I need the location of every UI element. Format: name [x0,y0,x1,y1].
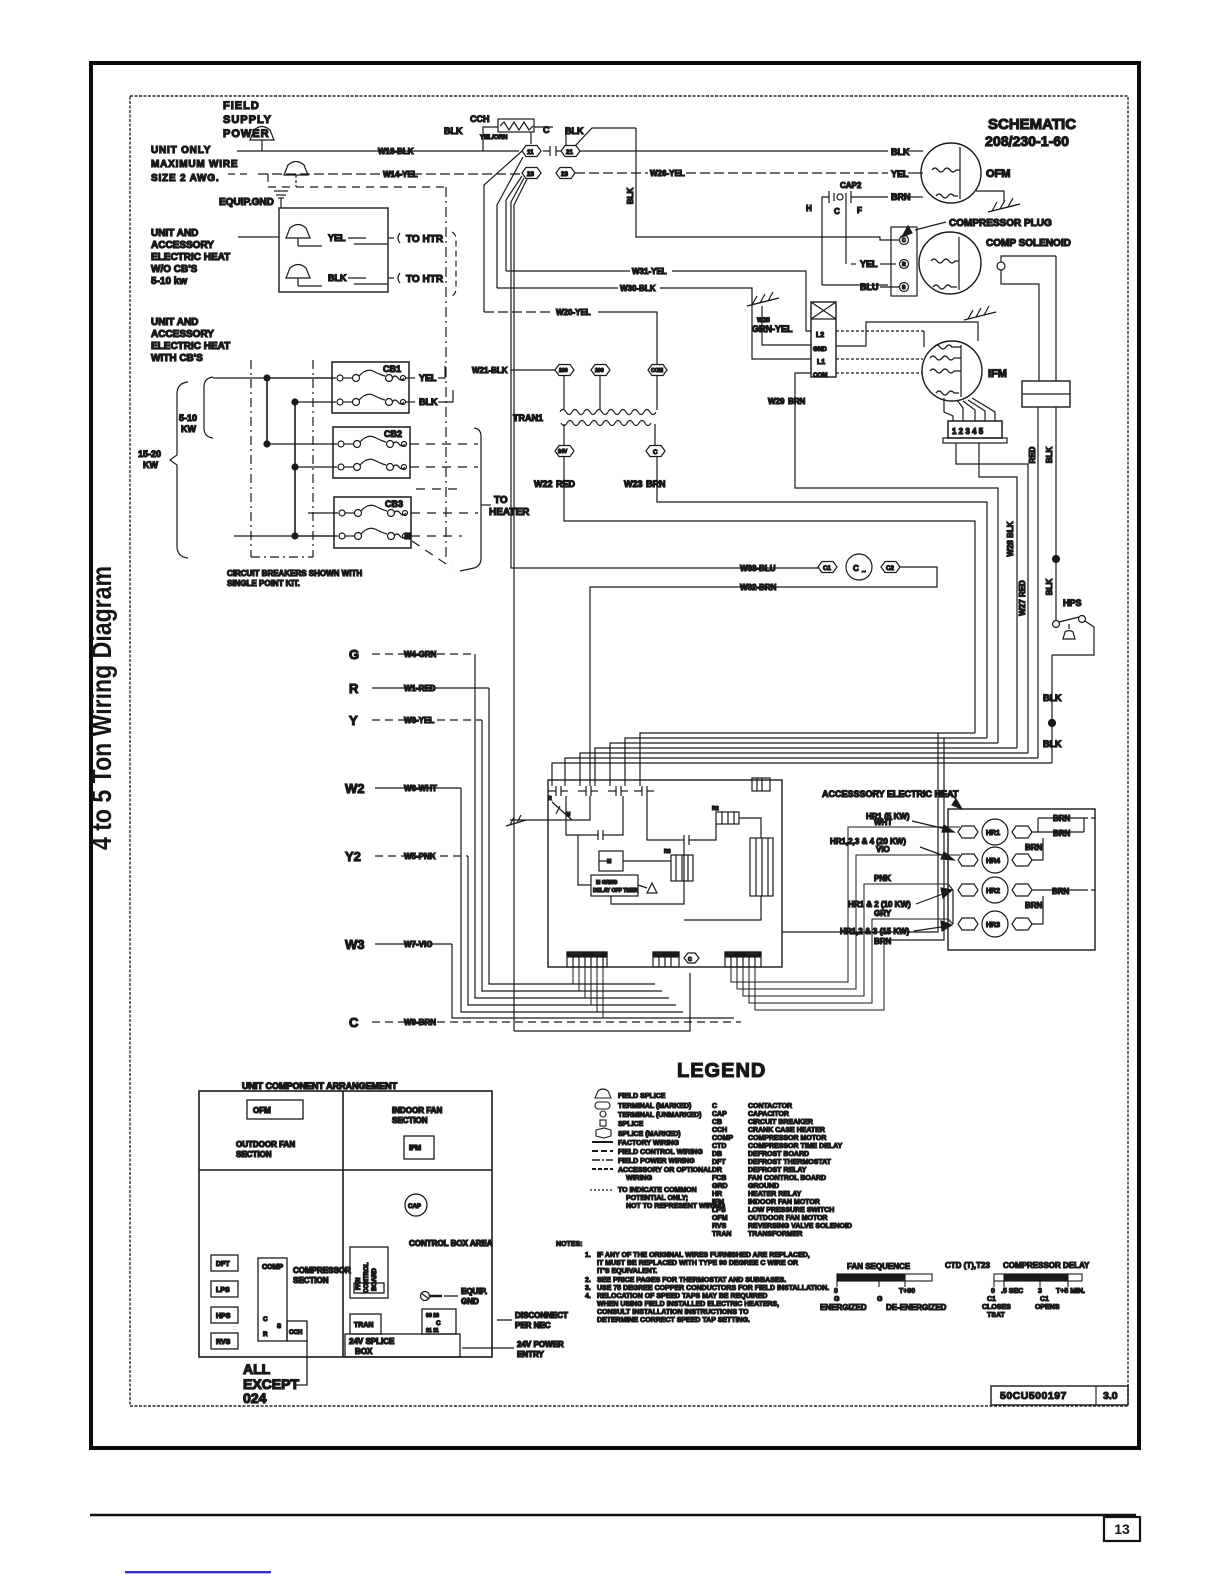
svg-text:ENERGIZED: ENERGIZED [820,1303,867,1312]
board internal wires [548,796,761,920]
svg-text:S: S [277,1323,281,1330]
coil R2 [712,806,739,824]
page outer border frame [91,63,1139,1448]
svg-text:R: R [902,262,906,268]
svg-text:HR: HR [712,1191,722,1198]
label CONTROL BOX AREA [409,1239,493,1248]
svg-text:FIELD POWER WIRING: FIELD POWER WIRING [618,1158,695,1165]
svg-text:IFM: IFM [409,1145,421,1152]
svg-text:C: C [688,957,692,963]
svg-text:TRAN1: TRAN1 [513,413,543,423]
svg-text:W30-BLK: W30-BLK [620,284,656,293]
svg-text:ELECTRIC HEAT: ELECTRIC HEAT [151,341,230,352]
svg-text:1 2 3 4 5: 1 2 3 4 5 [952,427,984,436]
svg-text:TRAN: TRAN [354,1322,373,1329]
svg-text:FCB: FCB [712,1175,726,1182]
svg-text:24V: 24V [558,449,568,455]
svg-text:HR1: HR1 [986,830,1000,837]
label UNIT AND ACCESSORY ELECTRIC HEAT W/O CB'S 5-10 kw [151,228,230,287]
coil R3 [664,849,693,881]
terminal 24V [555,446,574,457]
terminal 23b [556,168,575,179]
HR2 HR3 left link [948,884,953,924]
label BRN feed [874,937,892,946]
svg-text:SPLICE (MARKED): SPLICE (MARKED) [618,1131,681,1138]
bracket 5-10 KW [179,377,213,438]
board pin header group 2 [653,952,679,967]
label VIO [876,845,890,854]
svg-text:IFM: IFM [988,368,1007,380]
note circuit breakers single point [227,569,362,588]
heater relay HR3 [958,911,1032,937]
svg-text:FACTORY WIRING: FACTORY WIRING [618,1140,679,1147]
svg-text:W2: W2 [345,781,365,796]
label ACCESSSORY ELECTRIC HEAT [822,789,962,809]
compressor plug terminal box [891,227,917,296]
svg-text:CCH: CCH [289,1329,303,1336]
svg-text:IFM: IFM [712,1199,724,1206]
svg-text:TO HTR: TO HTR [406,274,444,285]
svg-text:CLOSES: CLOSES [982,1304,1011,1311]
ground for OFM [988,198,1020,212]
high pressure switch HPS [1053,598,1086,639]
DFT box [211,1255,238,1271]
svg-text:BRN: BRN [1025,901,1043,910]
svg-text:PER NEC: PER NEC [515,1321,551,1330]
label BLK left of CCH [444,125,584,141]
svg-text:IT MUST BE REPLACED WITH TYPE: IT MUST BE REPLACED WITH TYPE 90 DEGREE … [597,1260,798,1267]
svg-text:G: G [877,1296,883,1303]
svg-text:HEATER RELAY: HEATER RELAY [748,1191,802,1198]
wire W33 BLU to contactor coil [511,178,818,573]
dashed wires CB2 to heater [410,444,478,489]
relay arm [548,796,572,820]
svg-text:W31-YEL: W31-YEL [632,267,667,276]
defrost board outline [548,780,782,967]
label COMPRESSOR PLUG [902,218,1052,237]
wire W23 BRN [624,457,987,738]
svg-text:DE-ENERGIZED: DE-ENERGIZED [886,1303,947,1312]
label WHT [874,818,892,827]
svg-text:SECTION: SECTION [293,1276,329,1285]
svg-text:W26-YEL: W26-YEL [650,169,685,178]
svg-text:BLK: BLK [328,273,347,283]
wire BLK to HTR [328,273,394,284]
svg-text:DFT: DFT [712,1159,726,1166]
svg-text:BLK: BLK [1045,447,1054,464]
contactor coil terminal C2 [881,562,900,573]
FAN CONTROL BOARD box [350,1247,388,1298]
svg-text:C: C [712,1103,717,1110]
svg-text:LPS: LPS [712,1207,726,1214]
vertical page title [86,566,117,850]
svg-text:SECTION: SECTION [392,1116,428,1125]
label W27 RED [1018,580,1027,616]
dash-dot field boundary vertical [445,187,447,560]
svg-text:FAN SEQUENCE: FAN SEQUENCE [847,1262,911,1271]
svg-text:CAP: CAP [408,1203,421,1210]
svg-text:3.: 3. [585,1285,591,1292]
svg-text:C: C [653,449,658,456]
board capacitor 1 [590,830,611,840]
svg-text:BLK: BLK [891,147,910,157]
svg-text:CTD (T),T23: CTD (T),T23 [945,1261,990,1270]
svg-text:COM: COM [813,372,827,379]
wire CAP2 C to comp R YEL [846,201,896,269]
svg-text:COMPRESSOR TIME DELAY: COMPRESSOR TIME DELAY [748,1143,843,1150]
svg-text:C: C [349,1015,359,1030]
wire BLK hook to vertical [575,128,636,146]
contact TO HTR lower [398,273,444,285]
wires pins group1 to bottom bundle [573,967,734,1018]
svg-text:DEFROST BOARD: DEFROST BOARD [748,1151,809,1158]
svg-text:W28 BLK: W28 BLK [1006,521,1015,556]
svg-text:RED: RED [556,479,576,489]
wire 21 to OFM BLK [580,147,923,157]
contactor C coil box [811,302,836,379]
svg-text:GND: GND [461,1297,479,1306]
HR box right edge outputs [1084,818,1095,890]
wire CCH BLK run to solenoid [626,128,899,240]
svg-text:BLK: BLK [1045,579,1054,596]
svg-text:CAP: CAP [712,1111,727,1118]
circuit breaker CB2 [333,427,410,478]
dashed wires CB3 to heater [411,513,478,568]
svg-text:200: 200 [595,368,604,374]
svg-text:208/230-1-60: 208/230-1-60 [985,133,1069,149]
svg-text:F: F [857,206,862,215]
wire 23 to OFM YEL W26 [575,169,923,179]
svg-text:024: 024 [243,1390,267,1406]
svg-text:NOT TO REPRESENT WIRING: NOT TO REPRESENT WIRING [626,1203,726,1210]
relay M box [599,851,623,871]
legend abbreviations column [712,1103,852,1238]
board pin header group 1 [567,952,607,967]
svg-text:UNIT AND: UNIT AND [151,317,198,328]
unit arrangement outer box [199,1091,492,1357]
svg-text:R: R [263,1331,268,1338]
svg-text:TSAT: TSAT [987,1312,1005,1319]
bundle wire W23 BRN [625,738,987,786]
board top contact 3 [608,786,628,796]
svg-text:CONTROL: CONTROL [363,1262,370,1293]
contactor coil C [846,554,872,580]
accessory electric heat box [948,809,1095,950]
reversing valve solenoid RVS [1022,381,1070,407]
wire CAP2 F to OFM BRN [851,192,923,202]
wire OFM to ground [976,191,1004,201]
svg-text:R: R [349,681,359,696]
svg-text:UNIT AND: UNIT AND [151,228,198,239]
wire W21 BLK to tap 230 [472,366,555,375]
svg-text:CONTACTOR: CONTACTOR [748,1103,792,1110]
terminal 200 [591,365,610,376]
wire L2 to IFM [836,331,924,347]
svg-text:R3: R3 [664,849,671,855]
circuit breaker CB1 [332,362,409,413]
label HR123 15KW with arrow [840,921,952,936]
svg-text:COMP SOLENOID: COMP SOLENOID [986,238,1071,249]
svg-text:C2: C2 [886,565,894,572]
svg-text:Y2: Y2 [345,849,361,864]
label INDOOR FAN SECTION [392,1106,442,1125]
svg-text:BLK: BLK [419,397,438,407]
svg-text:SCHEMATIC: SCHEMATIC [988,116,1076,133]
svg-text:W33-BLU: W33-BLU [740,564,776,573]
svg-text:W22: W22 [534,479,553,489]
svg-text:RVS: RVS [712,1223,727,1230]
wire W20 YEL to COM tap [484,308,657,364]
svg-text:TERMINAL (MARKED): TERMINAL (MARKED) [618,1103,691,1110]
svg-text:21 11: 21 11 [426,1328,439,1334]
svg-text:CB: CB [712,1119,722,1126]
svg-text:G: G [349,647,359,662]
svg-text:HPS: HPS [216,1313,231,1320]
svg-text:W27 RED: W27 RED [1018,580,1027,616]
LPS box [211,1281,238,1297]
bundle wire W22 RED [640,733,975,786]
wire bracket to bus B [234,533,334,539]
terminal 230 [555,365,574,376]
svg-text:LPS: LPS [216,1287,230,1294]
wire CCH to terminal 11 [483,127,566,151]
svg-text:23: 23 [527,171,534,178]
svg-text:FIELD SPLICE: FIELD SPLICE [618,1093,666,1100]
svg-text:W/O CB'S: W/O CB'S [151,264,198,275]
svg-text:3.0: 3.0 [1103,1390,1118,1402]
svg-text:POWER: POWER [223,128,270,140]
svg-text:HR4: HR4 [986,858,1000,865]
HR3 link BRN [1025,896,1043,924]
svg-text:REVERSING VALVE SOLENOID: REVERSING VALVE SOLENOID [748,1223,852,1230]
svg-text:WHEN USING FIELD INSTALLED ELE: WHEN USING FIELD INSTALLED ELECTRIC HEAT… [597,1301,779,1308]
junction BLK labels right column [1043,655,1062,763]
board pin C [684,953,699,963]
svg-text:IT'S EQUIVALENT.: IT'S EQUIVALENT. [597,1268,657,1275]
svg-text:SECTION: SECTION [236,1150,272,1159]
heater relay HR1 [958,819,1032,845]
svg-text:BRN: BRN [891,192,911,202]
svg-text:RVS: RVS [216,1339,231,1346]
svg-text:2.: 2. [585,1277,591,1284]
svg-text:BRN: BRN [788,397,806,406]
svg-text:ALL: ALL [243,1361,271,1377]
svg-text:CONTROL BOX AREA: CONTROL BOX AREA [409,1239,493,1248]
svg-text:ACCESSORY: ACCESSORY [151,240,214,251]
svg-text:LOW PRESSURE SWITCH: LOW PRESSURE SWITCH [748,1207,834,1214]
svg-text:C: C [436,1320,441,1327]
svg-text:DFT: DFT [216,1261,230,1268]
svg-text:GRY: GRY [874,909,892,918]
legend accessory wiring [592,1167,713,1182]
wire W31 YEL to L2 [506,267,811,331]
wire W30 BLK to L1 [497,284,811,359]
svg-text:15-20: 15-20 [138,449,161,459]
svg-text:KW: KW [143,460,158,470]
svg-text:HR1,2 & 3 (15 KW): HR1,2 & 3 (15 KW) [840,927,910,936]
svg-text:YEL: YEL [891,169,909,179]
long vertical to C pin [514,973,690,1031]
legend splice marked symbol [596,1128,681,1138]
svg-text:WHT: WHT [874,818,892,827]
svg-text:ACCESSORY OR OPTIONAL: ACCESSORY OR OPTIONAL [618,1167,713,1174]
svg-text:R: R [548,796,552,802]
heater relay HR4 [958,847,1032,873]
svg-text:S: S [902,285,906,291]
svg-text:YEL: YEL [860,259,878,269]
svg-text:ACCESSORY: ACCESSORY [151,329,214,340]
TRAN box [350,1314,381,1334]
svg-text:5-10: 5-10 [179,413,197,423]
thermostat lead G [349,647,669,998]
svg-text:GROUND: GROUND [748,1183,779,1190]
thermostat lead R [349,681,655,984]
thermostat lead W3 [345,937,734,1018]
CAP circle [405,1194,427,1216]
label LEGEND [677,1060,766,1082]
svg-text:W32-BRN: W32-BRN [740,583,777,592]
motor COMP [919,232,981,294]
svg-text:DR: DR [712,1167,722,1174]
thermostat lead Y [349,713,662,991]
label SCHEMATIC 208/230-1-60 [985,116,1076,149]
svg-text:IF ANY OF THE ORIGINAL WIRES F: IF ANY OF THE ORIGINAL WIRES FURNISHED A… [597,1252,810,1259]
svg-text:C: C [853,564,859,573]
svg-text:L2: L2 [816,332,824,339]
svg-text:USE 75 DEGREE COPPER CONDUCTOR: USE 75 DEGREE COPPER CONDUCTORS FOR FIEL… [597,1285,829,1292]
motor OFM [921,143,1010,203]
svg-text:UNIT ONLY: UNIT ONLY [151,145,211,156]
svg-text:T+90: T+90 [899,1288,915,1295]
svg-text:13: 13 [1114,1521,1130,1537]
svg-text:VIO: VIO [876,845,890,854]
svg-text:C1: C1 [1040,1296,1049,1303]
svg-text:W14-YEL: W14-YEL [383,170,418,179]
svg-text:R2: R2 [712,806,719,812]
svg-text:OFM: OFM [986,168,1010,180]
svg-text:GRN-YEL: GRN-YEL [752,324,793,334]
svg-text:HR3: HR3 [986,922,1000,929]
svg-text:FIELD CONTROL WIRING: FIELD CONTROL WIRING [618,1149,703,1156]
svg-text:HR1,2,3 & 4 (20 KW): HR1,2,3 & 4 (20 KW) [830,837,906,846]
bundle wire RED RVS [565,758,1038,786]
small box top right [752,778,770,791]
label GRY [874,909,892,918]
svg-text:CONSULT INSTALLATION INSTRUCTI: CONSULT INSTALLATION INSTRUCTIONS TO [597,1309,749,1316]
label OUTDOOR FAN SECTION [236,1140,295,1159]
terminal 11 [522,146,541,157]
svg-text:OUTDOOR FAN: OUTDOOR FAN [236,1140,295,1149]
label 24V POWER ENTRY [462,1340,564,1359]
svg-text:SINGLE POINT KIT.: SINGLE POINT KIT. [227,579,300,588]
svg-text:W13-BLK: W13-BLK [378,147,414,156]
label HR1 5KW with arrow [866,812,954,832]
svg-text:RELOCATION OF SPEED TAPS MAY: RELOCATION OF SPEED TAPS MAY BE REQUIRED [597,1293,768,1300]
contact between 11 and 21 [543,146,561,156]
svg-text:11: 11 [527,149,534,156]
svg-text:T+5 MIN.: T+5 MIN. [1056,1288,1085,1295]
board top contact 1 [548,786,568,796]
CB3 pole 1 [308,505,408,516]
drawing number block [991,1386,1128,1405]
timer box DELAY OFF TIMER [591,875,638,896]
svg-text:EQUIP.GND: EQUIP.GND [219,197,274,208]
IFM box [404,1136,434,1159]
svg-text:DELAY OFF TMER: DELAY OFF TMER [593,888,638,894]
notes block [556,1241,829,1324]
heater relay HR2 [958,877,1032,903]
svg-text:GRD: GRD [712,1183,728,1190]
svg-text:93 23: 93 23 [426,1313,439,1319]
board ground [506,815,548,826]
field splice S1 [250,127,274,152]
svg-text:C1: C1 [987,1296,996,1303]
svg-text:W3-YEL: W3-YEL [404,716,434,725]
label HR1234 20KW with arrow [830,837,954,860]
svg-text:COM: COM [651,368,663,374]
svg-text:21: 21 [566,149,573,156]
board top contact 4 [634,786,654,796]
CB1 pole 2 [295,394,415,405]
dashed field boundary under splices [268,174,446,187]
legend factory wiring [592,1140,679,1147]
svg-text:Y: Y [349,713,358,728]
CB1 pole 1 [267,370,415,381]
field splice S2 [284,162,308,188]
svg-text:ENTRY: ENTRY [517,1350,544,1359]
svg-text:BRN: BRN [1025,843,1043,852]
svg-text:W21-BLK: W21-BLK [472,366,508,375]
svg-text:W7-VIO: W7-VIO [404,940,432,949]
svg-text:C1: C1 [823,565,831,572]
svg-text:OUTDOOR FAN MOTOR: OUTDOOR FAN MOTOR [748,1215,828,1222]
svg-text:DISCONNECT: DISCONNECT [515,1311,568,1320]
label COMP SOLENOID [986,238,1071,249]
svg-text:M: M [607,859,611,865]
svg-text:W23: W23 [624,479,643,489]
legend terminal marked symbol [595,1102,691,1110]
compressor delay diagram [945,1261,1090,1319]
motor IFM [922,341,1007,401]
svg-text:BLU: BLU [860,282,879,292]
svg-text:ACCESSSORY ELECTRIC HEAT: ACCESSSORY ELECTRIC HEAT [822,789,959,799]
terminal 21 [561,146,580,157]
circuit breaker CB3 [334,497,411,548]
HR2 output BRN [1032,887,1084,896]
svg-text:PNK: PNK [874,874,891,883]
wire W32 BRN coil return [590,567,937,786]
svg-text:~: ~ [862,569,866,576]
field splice S3 [286,225,322,247]
thermostat lead Y2 [345,849,676,1005]
svg-text:CB1: CB1 [383,364,401,374]
svg-text:COMPRESSOR DELAY: COMPRESSOR DELAY [1003,1261,1090,1270]
svg-text:HR1 & 2 (10 KW): HR1 & 2 (10 KW) [848,900,911,909]
svg-text:CAPACITOR: CAPACITOR [748,1111,789,1118]
svg-text:SUPPLY: SUPPLY [223,114,272,126]
board capacitor 2 [676,835,697,845]
svg-text:CAP2: CAP2 [840,181,862,190]
wire bracket to bus A [213,375,332,381]
svg-text:CTD: CTD [712,1143,726,1150]
svg-text:C: C [902,238,906,244]
dash-dot CB boundary left [251,360,313,557]
footer rule [90,1514,1136,1517]
CB2 pole 1 [267,436,407,447]
label UNIT ONLY MAXIMUM WIRE SIZE 2 AWG [151,145,238,184]
svg-text:M: M [566,812,570,818]
svg-text:C: C [834,207,840,216]
